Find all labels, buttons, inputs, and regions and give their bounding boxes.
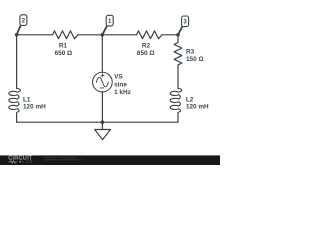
wire node3 down to R3 — [177, 35, 179, 43]
svg-text:650 Ω: 650 Ω — [55, 50, 73, 57]
junction node 1 dot — [101, 33, 105, 37]
svg-text:L1: L1 — [23, 97, 31, 104]
svg-text:R1: R1 — [59, 43, 68, 50]
inductor L2 coil — [170, 89, 182, 114]
svg-text:http://circuitlab.com/c/677b5c: http://circuitlab.com/c/677b5cb5dubm5 — [44, 157, 81, 161]
inductor L1 coil — [9, 89, 21, 114]
junction bottom middle dot — [101, 120, 105, 124]
wire left rail below L1 — [16, 114, 18, 123]
watermark logo wave — [8, 161, 17, 163]
voltage source VS circle — [93, 72, 113, 92]
svg-text:150 Ω: 150 Ω — [186, 56, 204, 63]
VS plus sign — [101, 74, 104, 77]
svg-text:R3: R3 — [186, 49, 195, 56]
wire L2 to bottom-right corner — [177, 114, 179, 123]
wire node1 down to VS — [101, 35, 103, 73]
node tag 3 pointer — [178, 27, 182, 35]
ground stub — [101, 122, 103, 129]
node tag 2 pointer — [17, 26, 21, 35]
wire R3 to L2 — [177, 65, 179, 89]
wire top-left segment node2 to R1 — [17, 34, 53, 36]
watermark logo bullet — [19, 161, 21, 163]
resistor R2 — [137, 31, 163, 39]
VS minus sign — [100, 87, 104, 89]
svg-text:120 mH: 120 mH — [23, 104, 46, 111]
ground triangle — [95, 130, 111, 140]
resistor R1 — [53, 31, 79, 39]
node tag 3 box — [182, 16, 189, 27]
junction node 3 dot — [176, 33, 180, 37]
VS sine wave — [96, 77, 108, 87]
wire node1 to R2 — [102, 34, 136, 36]
svg-text:sine: sine — [114, 81, 127, 88]
wire bottom rail — [17, 121, 178, 123]
node tag 2 box — [20, 15, 27, 26]
node tag 1 box — [106, 15, 113, 26]
wire R2 to node 3 — [162, 34, 178, 36]
svg-text:R2: R2 — [142, 43, 151, 50]
resistor R3 — [174, 43, 182, 65]
wire left rail above L1 — [16, 35, 18, 89]
wire VS to bottom junction — [101, 92, 103, 122]
wire R1 to node 1 — [78, 34, 102, 36]
svg-text:1 kHz: 1 kHz — [114, 89, 131, 96]
svg-text:L2: L2 — [186, 96, 194, 103]
watermark bar — [0, 155, 220, 165]
junction node 2 corner dot — [15, 33, 19, 37]
svg-text:120 mH: 120 mH — [186, 104, 209, 111]
node tag 1 pointer — [102, 26, 107, 35]
svg-text:LAB: LAB — [22, 159, 33, 164]
svg-text:VS: VS — [114, 74, 123, 81]
svg-text:650 Ω: 650 Ω — [137, 50, 155, 57]
